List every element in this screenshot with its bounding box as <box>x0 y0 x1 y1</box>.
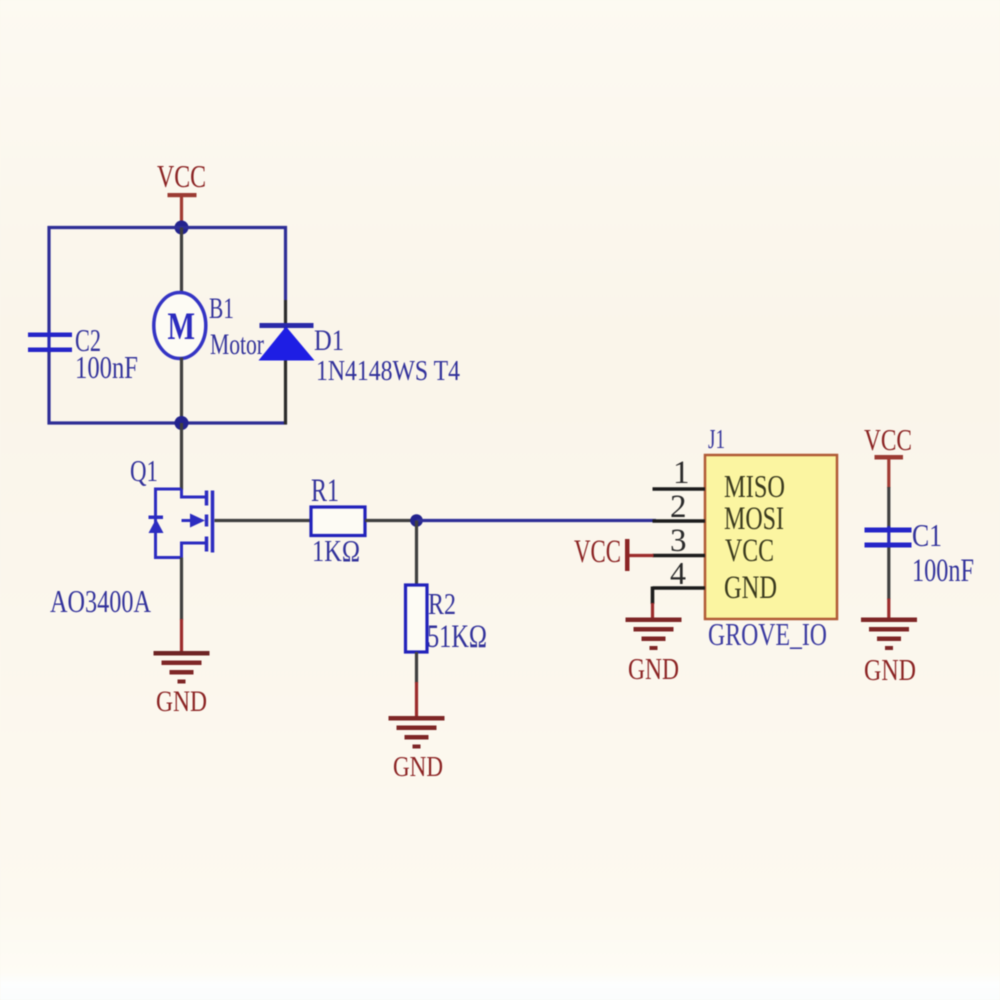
ground (R2) <box>389 716 445 783</box>
wire node C to R2 <box>415 521 418 587</box>
wire right rail diode section <box>284 300 287 425</box>
wire R1 to node C <box>365 519 417 522</box>
node B (drain junction) <box>175 416 189 430</box>
ground (Q1 source) <box>154 651 210 718</box>
svg-text:GND: GND <box>628 651 679 686</box>
wire Q1 drain <box>180 423 183 490</box>
resistor R2 <box>406 585 488 655</box>
svg-text:3: 3 <box>670 523 687 559</box>
power flag VCC (right) <box>864 422 912 488</box>
svg-text:B1: B1 <box>209 292 234 325</box>
svg-text:GND: GND <box>393 751 443 783</box>
wire motor branch upper <box>180 228 183 294</box>
svg-text:R2: R2 <box>428 586 456 621</box>
svg-text:1KΩ: 1KΩ <box>312 533 360 568</box>
svg-text:1: 1 <box>673 455 690 491</box>
motor B1 <box>154 292 264 361</box>
svg-text:VCC: VCC <box>725 533 774 569</box>
svg-text:GROVE_IO: GROVE_IO <box>708 616 827 652</box>
svg-text:MISO: MISO <box>724 468 785 504</box>
wire right rail upper <box>284 226 287 300</box>
svg-text:VCC: VCC <box>157 158 206 194</box>
resistor R1 <box>311 473 365 568</box>
svg-text:4: 4 <box>670 555 686 591</box>
diode D1 <box>259 323 461 387</box>
svg-text:GND: GND <box>724 570 777 606</box>
connector J1 <box>705 424 837 652</box>
svg-text:GND: GND <box>156 685 207 718</box>
svg-text:GND: GND <box>864 652 916 687</box>
wire node C to J1 pin 2 <box>417 519 657 522</box>
wire Q1 source <box>180 558 183 621</box>
svg-text:C1: C1 <box>912 517 942 553</box>
pin 2 MOSI <box>653 489 785 537</box>
wire pin 4 to ground <box>651 587 655 605</box>
svg-text:Motor: Motor <box>210 328 264 361</box>
svg-text:R1: R1 <box>311 473 339 509</box>
wire motor branch lower <box>180 358 183 424</box>
wire left rail upper <box>47 226 50 332</box>
node A (VCC rail junction) <box>175 221 189 235</box>
svg-text:1N4148WS T4: 1N4148WS T4 <box>316 355 460 387</box>
capacitor C2 <box>28 322 138 385</box>
capacitor C1 <box>865 517 975 589</box>
pin 3 VCC <box>653 523 775 569</box>
wire left rail lower <box>47 352 50 425</box>
pin 1 MISO <box>653 455 786 504</box>
power flag VCC (pin 3) <box>574 534 654 571</box>
svg-text:VCC: VCC <box>864 422 912 457</box>
wire C1 to ground <box>887 548 890 600</box>
svg-text:Q1: Q1 <box>130 453 158 488</box>
wire bottom rail <box>48 421 288 424</box>
svg-text:M: M <box>168 305 196 348</box>
pin 4 GND <box>653 555 778 606</box>
svg-text:AO3400A: AO3400A <box>50 583 151 619</box>
wire top rail <box>48 226 288 229</box>
ground (J1 pin 4) <box>626 618 682 687</box>
svg-text:2: 2 <box>670 489 687 525</box>
power flag VCC (top) <box>157 158 206 224</box>
svg-text:51KΩ: 51KΩ <box>427 619 487 655</box>
svg-text:J1: J1 <box>708 424 725 454</box>
svg-text:100nF: 100nF <box>75 349 138 385</box>
svg-text:VCC: VCC <box>574 534 621 570</box>
svg-text:MOSI: MOSI <box>724 501 784 537</box>
wire VCC to C1 <box>887 487 890 528</box>
svg-text:D1: D1 <box>314 324 344 357</box>
wire Q1 gate to R1 <box>215 519 312 522</box>
node C (gate divider junction) <box>410 514 423 527</box>
wire R2 to ground <box>415 652 418 683</box>
ground (C1) <box>861 618 917 688</box>
svg-text:100nF: 100nF <box>912 553 974 589</box>
transistor Q1 <box>50 453 213 619</box>
